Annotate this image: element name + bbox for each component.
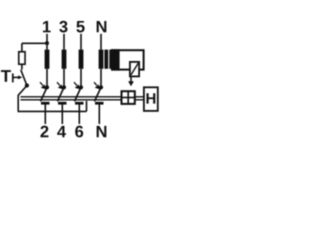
CT primary bar pole 1 [45,50,50,69]
mechanical linkage double line [21,97,144,100]
label H [146,93,155,103]
resistor R-test stub bottom [21,65,23,70]
node: pole N contact pivot [99,85,103,89]
label terminal 6 bottom [75,126,83,138]
label terminal 3 top [59,21,67,33]
mechanism box cross horizontal [122,97,135,99]
CT core filled block [111,49,120,70]
label terminal 5 top [76,21,84,33]
CT primary bar pole N [99,50,104,69]
wire: terminal 5 stub [80,34,82,50]
test button actuator rod [13,76,19,78]
label T (test button) [1,70,11,82]
node: test contact pivot dot [25,83,29,87]
trip linkage stub [130,77,132,81]
mechanism box cross vertical [127,91,129,104]
pole 3 fixed contact tick [58,102,67,105]
node: pole 5 contact pivot [79,85,83,89]
resistor R-test body [19,52,25,65]
label terminal N bottom [97,126,107,137]
test contact blade [21,70,27,86]
mechanism box [122,91,135,104]
pole 1 contact arrow [40,82,43,85]
CT secondary winding bar 1 [104,50,108,69]
node: pole 3 contact pivot [62,85,66,89]
wire: terminal N bottom stub [98,105,100,125]
trip relay diagonal [131,63,138,75]
pole 3 contact arrow [57,82,60,85]
wire: terminal 4 bottom stub [61,105,63,125]
wire: test bottom horizontal to N load side [18,101,87,112]
label terminal 1 top [43,21,51,32]
wire: pole 5 to contact [80,69,82,88]
wire: terminal 2 bottom stub [44,105,46,125]
CT primary bar pole 5 [79,50,84,69]
resistor R-test stub top [21,43,23,51]
wire: pole N to contact [100,69,102,88]
label terminal N top [97,21,107,32]
pole N fixed contact tick [95,102,104,105]
CT primary bar pole 3 [62,50,67,69]
node: pole 1 contact pivot [45,85,49,89]
wire: test contact to bottom bracket [18,86,27,111]
CT secondary loop rectangle [112,50,143,69]
pole N contact blade [95,87,102,101]
pole 1 contact blade [41,87,48,101]
wire: pole 1 to contact [46,69,48,88]
pole 1 fixed contact tick [41,102,50,105]
trip linkage arrowhead [128,81,134,86]
wire: terminal 6 bottom stub [78,105,80,125]
trip relay release square [130,62,139,77]
label terminal 4 bottom [57,126,66,137]
wire: terminal 3 stub [63,34,65,50]
test button actuator arrow tip [18,75,22,79]
label terminal 2 bottom [40,126,48,138]
CT secondary winding bar 2 [109,50,112,69]
node: junction dot on pole 1 supply side [45,41,49,45]
wire: terminal N stub [100,34,102,50]
handle box H [144,87,158,111]
pole 5 fixed contact tick [75,102,84,105]
wire: pole 3 to contact [63,69,65,88]
pole 5 contact arrow [74,82,77,85]
pole 3 contact blade [58,87,65,101]
test button actuator plate [12,73,14,82]
pole N contact arrow [94,82,97,85]
pole 5 contact blade [75,87,82,101]
wire: test circuit top horizontal [22,42,47,44]
wire: terminal 1 stub [46,34,48,50]
